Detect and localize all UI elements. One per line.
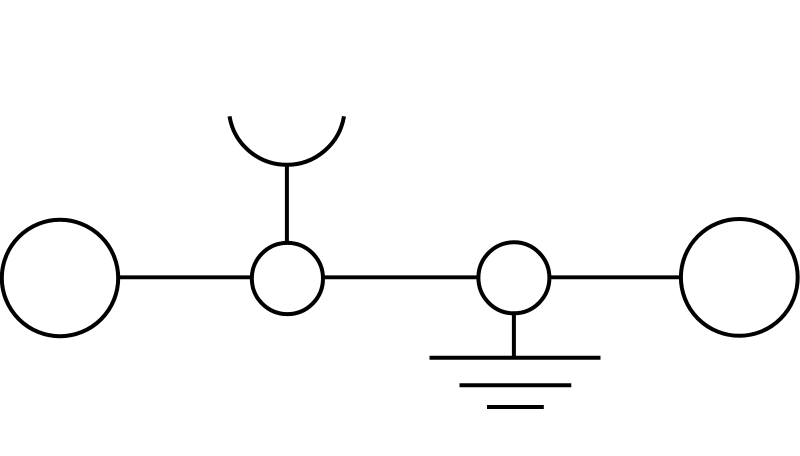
ground bar 3	[487, 405, 544, 409]
ground bar 2	[460, 383, 572, 387]
node circle 1	[252, 243, 323, 314]
terminal circle right	[681, 219, 798, 336]
antenna arc above node 1	[230, 116, 345, 164]
wire left circle to node 1	[119, 275, 252, 279]
wire node 1 to node 2	[324, 275, 478, 279]
wire node 2 to ground	[512, 314, 516, 359]
wire arc to node 1	[285, 164, 289, 243]
wire node 2 to right circle	[551, 275, 681, 279]
source/terminal circle left	[2, 220, 118, 336]
ground bar 1	[430, 356, 601, 360]
node circle 2	[478, 242, 549, 313]
